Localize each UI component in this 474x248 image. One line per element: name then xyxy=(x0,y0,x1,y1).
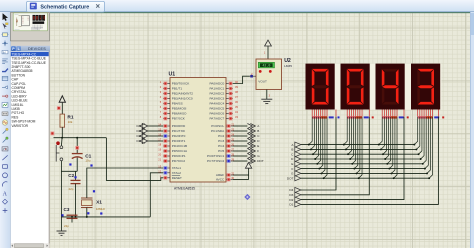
svg-text:D4: D4 xyxy=(289,188,293,192)
wire C1 bottom xyxy=(61,170,77,172)
svg-text:PD2/INT0: PD2/INT0 xyxy=(172,134,186,138)
overview window xyxy=(11,13,50,41)
svg-text:PB1/T1: PB1/T1 xyxy=(172,87,183,91)
terminal E (from U1 PC4) xyxy=(233,145,247,147)
svg-text:D2: D2 xyxy=(137,134,141,138)
wire reset node to RESET pin xyxy=(106,138,163,181)
pin 35 PA5/ADC5 xyxy=(226,108,233,110)
active tab Schematic Capture xyxy=(27,1,105,12)
pin 25 PC3 xyxy=(226,140,233,142)
capacitor C3 xyxy=(67,214,78,216)
svg-text:LM35: LM35 xyxy=(284,64,292,68)
pin 28 PC6/TOSC1 xyxy=(226,155,233,157)
pin 1 PB0/T0/XCK xyxy=(163,83,170,85)
svg-text:PC3: PC3 xyxy=(218,139,224,143)
pin 27 PC5 xyxy=(226,150,233,152)
ground symbol left xyxy=(60,217,62,231)
svg-text:AVCC: AVCC xyxy=(216,178,225,182)
wire display1 seg A xyxy=(309,117,312,145)
wire display2 seg C xyxy=(348,117,351,154)
bus wire A xyxy=(301,144,414,146)
wire display1 seg DOT xyxy=(324,117,327,178)
pin 24 PC2 xyxy=(226,135,233,137)
toolbar icon vprobe xyxy=(3,128,9,134)
bus wire F xyxy=(301,168,425,170)
svg-text:PB2/AIN0/INT2: PB2/AIN0/INT2 xyxy=(172,92,193,96)
toolbar icon pin xyxy=(2,95,8,97)
left toolbar xyxy=(0,12,10,248)
wire display4 seg G xyxy=(427,117,430,174)
resistor R1 xyxy=(60,114,65,127)
svg-text:PB5/MOSI: PB5/MOSI xyxy=(172,107,187,111)
wire AREF to power xyxy=(233,174,249,176)
svg-text:PB6/MISO: PB6/MISO xyxy=(172,112,187,116)
svg-text:B: B xyxy=(257,129,259,133)
capacitor C1 xyxy=(76,138,78,154)
toolbar icon box xyxy=(3,165,8,169)
wire display2 seg F xyxy=(354,117,357,169)
right scrollbar xyxy=(470,12,474,248)
svg-text:PC5: PC5 xyxy=(218,149,224,153)
wire display1 seg E xyxy=(317,117,320,164)
bus wire G xyxy=(301,172,427,174)
svg-text:PD1/TXD: PD1/TXD xyxy=(172,129,186,133)
bus wire E xyxy=(301,163,423,165)
toolbar icon 2dtext xyxy=(3,191,8,197)
display 1 pins xyxy=(311,110,313,117)
toolbar icon sym xyxy=(2,199,7,204)
svg-text:DOT: DOT xyxy=(257,159,264,163)
wire display3 seg C xyxy=(383,117,386,154)
terminal D2 (to U1 PD2) xyxy=(148,135,163,137)
crystal X1 xyxy=(81,197,93,199)
power terminal VCC (reset circuit) xyxy=(61,102,63,114)
device list xyxy=(11,52,49,244)
terminal B (from U1 PC1) xyxy=(233,130,247,132)
svg-text:ATMEGA8535: ATMEGA8535 xyxy=(174,187,195,191)
wire display1 seg B xyxy=(311,117,314,150)
svg-text:PD7/OC2: PD7/OC2 xyxy=(172,159,186,163)
wire display4 seg A xyxy=(414,117,417,145)
7-seg display module 1 (digit 0) xyxy=(306,64,335,110)
origin marker blue diamond xyxy=(244,194,250,200)
toolbar icon arrow xyxy=(3,14,8,21)
wire display4 seg C xyxy=(419,117,422,154)
bus wire C xyxy=(301,153,419,155)
left panel background xyxy=(11,12,50,248)
pin 15 PD1/TXD xyxy=(163,130,170,132)
wire display3 seg B xyxy=(381,117,384,150)
wire display3 seg DOT xyxy=(394,117,397,178)
svg-text:12MHz: 12MHz xyxy=(96,207,106,211)
wire display3 seg D xyxy=(385,117,388,159)
ground rail wire xyxy=(61,216,150,218)
svg-text:PC0/SCL: PC0/SCL xyxy=(211,124,224,128)
svg-text:E: E xyxy=(291,162,293,166)
microcontroller U1 body xyxy=(170,78,226,183)
tab bar xyxy=(0,0,474,12)
svg-text:PD4/OC1B: PD4/OC1B xyxy=(172,144,187,148)
toolbar icon line xyxy=(2,155,7,160)
toolbar icon sub xyxy=(2,76,8,80)
wire display1 seg C xyxy=(313,117,316,154)
pin 18 PD4/OC1B xyxy=(163,145,170,147)
svg-text:C2: C2 xyxy=(68,173,74,178)
svg-text:DOT: DOT xyxy=(287,176,294,180)
wire D3 to display 2 common xyxy=(301,117,369,195)
terminal A (from U1 PC0) xyxy=(233,125,247,127)
svg-text:D2: D2 xyxy=(289,198,293,202)
toolbar icon junc xyxy=(2,40,8,46)
wire XTAL2 via ground rail xyxy=(150,173,163,217)
wire display2 seg A xyxy=(344,117,347,145)
toolbar icon arc xyxy=(2,182,7,187)
svg-text:XTAL2: XTAL2 xyxy=(172,171,182,175)
overview mini schematic xyxy=(15,15,46,30)
toolbar icon bus xyxy=(2,69,8,72)
toolbar icon comp xyxy=(2,33,9,36)
svg-text:D1: D1 xyxy=(137,139,141,143)
svg-text:PA7/ADC7: PA7/ADC7 xyxy=(209,117,224,121)
svg-text:PD3/INT1: PD3/INT1 xyxy=(172,139,186,143)
7-seg 4-digit display body xyxy=(306,64,442,110)
7-seg display module 3 (digit 4) xyxy=(376,64,405,110)
wire R1 bottom to reset node xyxy=(61,127,63,138)
pin 29 PC7/TOSC2 xyxy=(226,160,233,162)
pin 33 PA7/ADC7 xyxy=(226,118,233,120)
pin 36 PA4/ADC4 xyxy=(226,103,233,105)
wire display4 seg B xyxy=(416,117,419,150)
terminal DOT (from U1 PC7) xyxy=(233,160,247,162)
wire display4 seg DOT xyxy=(429,117,432,178)
svg-text:PC7/TOSC2: PC7/TOSC2 xyxy=(207,159,224,163)
temperature sensor U2 LM35 body xyxy=(256,59,282,90)
pin 39 PA1/ADC1 xyxy=(226,88,233,90)
svg-text:VOUT: VOUT xyxy=(258,79,267,83)
7-seg display module 4 (digit 3) xyxy=(411,64,440,110)
svg-text:F: F xyxy=(257,149,259,153)
pin 26 PC4 xyxy=(226,145,233,147)
pin 3 PB2/AIN0/INT2 xyxy=(163,93,170,95)
pin 7 PB6/MISO xyxy=(163,113,170,115)
display 3 pins xyxy=(381,110,383,117)
pin 37 PA3/ADC3 xyxy=(226,98,233,100)
svg-text:PB4/SS: PB4/SS xyxy=(172,102,183,106)
svg-text:PA0/ADC0: PA0/ADC0 xyxy=(209,82,224,86)
terminal D1 (to U1 PD3) xyxy=(148,140,163,142)
svg-text:D1: D1 xyxy=(289,203,293,207)
pin 30 AVCC xyxy=(226,179,233,181)
toolbar icon sel xyxy=(3,23,8,29)
wire display2 seg D xyxy=(350,117,353,159)
svg-text:PC2: PC2 xyxy=(218,134,224,138)
toolbar icon circ xyxy=(3,173,8,178)
wire display1 seg F xyxy=(319,117,322,169)
svg-text:D3: D3 xyxy=(289,193,293,197)
svg-text:VARISTOR: VARISTOR xyxy=(12,124,29,128)
svg-text:PC6/TOSC1: PC6/TOSC1 xyxy=(207,154,224,158)
toolbar icon graph xyxy=(2,103,8,108)
pin 20 PD6/ICP1 xyxy=(163,155,170,157)
svg-text:42.0: 42.0 xyxy=(262,64,270,68)
wire display2 seg DOT xyxy=(359,117,362,178)
pin VOUT wire to PA0 xyxy=(250,75,256,77)
devices header xyxy=(11,46,50,52)
wire display3 seg A xyxy=(379,117,382,145)
wire button to ground rail xyxy=(60,161,62,217)
svg-text:22p: 22p xyxy=(69,187,74,191)
svg-text:PA5/ADC5: PA5/ADC5 xyxy=(209,107,224,111)
toolbar icon lbl xyxy=(2,50,8,54)
svg-text:PD0/RXD: PD0/RXD xyxy=(172,124,186,128)
svg-text:PC4: PC4 xyxy=(218,144,224,148)
svg-text:D4: D4 xyxy=(137,124,141,128)
wire display2 seg B xyxy=(346,117,349,150)
svg-text:lbl: lbl xyxy=(3,50,6,54)
pin 17 PD3/INT1 xyxy=(163,140,170,142)
svg-text:XTAL1: XTAL1 xyxy=(172,166,182,170)
svg-text:22p: 22p xyxy=(64,224,69,228)
svg-text:D3: D3 xyxy=(137,129,141,133)
svg-text:PC1/SDA: PC1/SDA xyxy=(211,129,225,133)
pin 9 RESET xyxy=(163,177,170,179)
svg-text:AREF: AREF xyxy=(216,173,224,177)
toolbar icon term xyxy=(2,86,7,89)
pin 19 PD5/OC1A xyxy=(163,150,170,152)
power terminal (AREF/AVCC) xyxy=(248,166,250,171)
svg-text:RESET: RESET xyxy=(172,176,182,180)
svg-text:PA3/ADC3: PA3/ADC3 xyxy=(209,97,224,101)
pin 32 AREF xyxy=(226,174,233,176)
power terminal VCC (LM35) xyxy=(267,46,269,59)
wire display1 seg G xyxy=(322,117,325,174)
pin 14 PD0/RXD xyxy=(163,125,170,127)
svg-text:C3: C3 xyxy=(64,207,70,212)
capacitor C2 xyxy=(75,171,77,180)
bus wire B xyxy=(301,148,416,150)
svg-text:PA4/ADC4: PA4/ADC4 xyxy=(209,102,224,106)
svg-text:A: A xyxy=(3,191,8,197)
svg-text:PD5/OC1A: PD5/OC1A xyxy=(172,149,188,153)
svg-text:PA6/ADC6: PA6/ADC6 xyxy=(209,112,224,116)
pin 22 PC0/SCL xyxy=(226,125,233,127)
ground symbol U2 xyxy=(266,90,268,100)
toolbar icon inst xyxy=(2,147,8,151)
toolbar icon iprobe xyxy=(3,137,9,143)
svg-text:10k: 10k xyxy=(68,120,73,124)
terminal D4 (to U1 PD0) xyxy=(148,125,163,127)
toolbar icon text xyxy=(2,59,8,63)
toolbar icon gen xyxy=(2,120,7,125)
terminal D3 (to U1 PD1) xyxy=(148,130,163,132)
wire display2 seg E xyxy=(352,117,355,164)
devices h-scrollbar xyxy=(11,243,49,248)
toolbar icon tape xyxy=(2,112,8,116)
7-seg display module 2 (digit 0) xyxy=(341,64,370,110)
wire display3 seg G xyxy=(392,117,395,174)
svg-text:F: F xyxy=(292,167,294,171)
push button xyxy=(60,138,63,146)
reset node wire xyxy=(54,137,107,139)
pin 5 PB4/SS xyxy=(163,103,170,105)
display 2 pins xyxy=(346,110,348,117)
wire display1 seg D xyxy=(315,117,318,159)
svg-text:PD6/ICP1: PD6/ICP1 xyxy=(172,154,186,158)
pin 4 PB3/AIN1/OC0 xyxy=(163,98,170,100)
svg-text:Schematic Capture: Schematic Capture xyxy=(40,5,89,11)
svg-text:PA2/ADC2: PA2/ADC2 xyxy=(209,92,224,96)
svg-text:10u: 10u xyxy=(85,159,90,163)
svg-text:U2: U2 xyxy=(284,58,291,64)
pin 8 PB7/SCK xyxy=(163,118,170,120)
wire D1 to display 4 common xyxy=(301,117,438,205)
pin 13 XTAL1 xyxy=(163,167,170,169)
terminal F (from U1 PC5) xyxy=(233,150,247,152)
svg-text:PB0/T0/XCK: PB0/T0/XCK xyxy=(172,82,190,86)
wire display3 seg F xyxy=(389,117,392,169)
svg-text:DEVICES: DEVICES xyxy=(28,47,46,51)
terminal D (from U1 PC3) xyxy=(233,140,247,142)
wire display4 seg E xyxy=(423,117,426,164)
pin 38 PA2/ADC2 xyxy=(226,93,233,95)
wire display4 seg D xyxy=(421,117,424,159)
svg-text:PB3/AIN1/OC0: PB3/AIN1/OC0 xyxy=(172,97,193,101)
canvas top edge line xyxy=(50,12,470,13)
wire XTAL1 to crystal xyxy=(87,168,163,198)
pin 40 PA0/ADC0 xyxy=(226,83,233,85)
terminal G (from U1 PC6) xyxy=(233,155,247,157)
display 4 pins xyxy=(417,110,419,117)
wire display4 seg F xyxy=(425,117,428,169)
pin 21 PD7/OC2 xyxy=(163,160,170,162)
wire display2 seg G xyxy=(357,117,360,174)
pin 2 PB1/T1 xyxy=(163,88,170,90)
wire AVCC to power xyxy=(233,179,249,181)
bus wire DOT xyxy=(301,177,429,179)
pin 16 PD2/INT0 xyxy=(163,135,170,137)
pin 12 XTAL2 xyxy=(163,172,170,174)
svg-text:X1: X1 xyxy=(96,200,102,206)
svg-text:E: E xyxy=(257,144,259,148)
pin 23 PC1/SDA xyxy=(226,130,233,132)
wire D2 to display 3 common xyxy=(301,117,404,200)
overview mini sheet xyxy=(13,13,47,31)
bus wire D xyxy=(301,158,421,160)
pin 34 PA6/ADC6 xyxy=(226,113,233,115)
terminal C (from U1 PC2) xyxy=(233,135,247,137)
svg-text:PB7/SCK: PB7/SCK xyxy=(172,117,186,121)
svg-text:B: B xyxy=(291,148,293,152)
svg-text:U1: U1 xyxy=(169,72,176,78)
wire D4 to display 1 common xyxy=(301,117,336,190)
pin 6 PB5/MOSI xyxy=(163,108,170,110)
wire display3 seg E xyxy=(387,117,390,164)
toolbar icon mark xyxy=(3,208,8,213)
svg-text:PA1/ADC1: PA1/ADC1 xyxy=(209,87,224,91)
